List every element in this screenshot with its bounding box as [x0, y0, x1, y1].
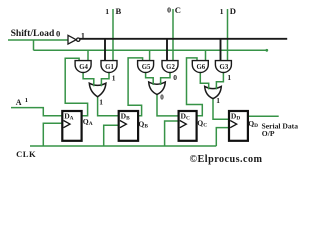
wire input C vertical	[172, 9, 174, 62]
wire bus drop to G1	[104, 39, 106, 62]
wire stub OR3 left input	[208, 86, 210, 89]
svg-text:1: 1	[216, 96, 220, 105]
or gate OR3	[205, 86, 222, 98]
and gate G2	[162, 61, 178, 73]
wire QD serial out	[248, 115, 279, 117]
svg-text:1: 1	[99, 98, 103, 107]
wire clock stub DB	[104, 125, 119, 146]
flip-flop DB box	[119, 111, 138, 141]
wire stub OR2 left input	[152, 82, 154, 85]
wire G6 out to OR3	[200, 73, 208, 89]
flip-flop DD box	[229, 111, 248, 141]
svg-text:0: 0	[160, 94, 164, 102]
wire inverted bus	[80, 38, 288, 40]
wire stub OR2 right input	[160, 82, 162, 85]
and gate G3	[215, 61, 231, 73]
wire bus drop to G2	[166, 39, 168, 62]
flip-flop DC clock triangle	[180, 121, 187, 128]
svg-text:Shift/Load: Shift/Load	[11, 28, 55, 39]
flip-flop DD clock triangle	[230, 121, 237, 128]
wire stub OR3 right input	[215, 86, 217, 89]
or gate OR1	[89, 83, 106, 97]
and gate G4	[75, 61, 91, 73]
svg-text:1: 1	[25, 97, 28, 104]
wire rail drop to G5	[149, 50, 151, 61]
svg-text:G6: G6	[196, 64, 205, 71]
wire input D vertical	[227, 9, 229, 62]
wire clock stub DD	[216, 128, 229, 146]
wire input B vertical	[112, 9, 114, 62]
svg-text:G3: G3	[220, 64, 229, 71]
wire rail drop to G6	[205, 50, 207, 61]
svg-text:1: 1	[81, 32, 85, 41]
svg-text:G4: G4	[79, 64, 88, 71]
wire QA to G4	[65, 58, 87, 115]
and gate G1	[101, 61, 117, 73]
wire rail drop to G4	[87, 50, 89, 61]
node rail end dot	[265, 49, 268, 52]
svg-text:O/P: O/P	[262, 129, 275, 138]
svg-text:1: 1	[112, 74, 116, 83]
wire Shift/Load direct rail	[34, 49, 268, 51]
svg-text:C: C	[175, 5, 181, 15]
svg-text:B: B	[116, 6, 122, 16]
svg-text:0: 0	[56, 29, 60, 39]
wire QC to G6	[187, 58, 203, 116]
wire G5 out to OR2	[146, 73, 154, 84]
wire OR3 out to DD	[213, 98, 229, 119]
svg-text:1: 1	[220, 7, 224, 16]
svg-text:G1: G1	[105, 64, 114, 71]
or gate OR2	[149, 82, 166, 94]
wire OR1 out to DB	[98, 97, 119, 116]
svg-text:D: D	[230, 6, 236, 16]
svg-text:©Elprocus.com: ©Elprocus.com	[190, 154, 263, 165]
wire input A to DA	[11, 108, 62, 116]
svg-text:0: 0	[167, 6, 171, 15]
flip-flop DA clock triangle	[64, 121, 71, 128]
svg-text:1: 1	[227, 73, 231, 82]
wire clock stub DA	[43, 123, 62, 146]
wire Shift/Load direct rail drop	[33, 40, 35, 50]
wire bus drop to G3	[220, 39, 222, 62]
svg-text:CLK: CLK	[16, 149, 36, 159]
and gate G5	[138, 61, 154, 73]
svg-text:G5: G5	[142, 64, 151, 71]
svg-text:G2: G2	[166, 64, 175, 71]
wire G4 out to OR1	[83, 73, 94, 85]
wire G3 out to OR3	[216, 73, 223, 89]
wire stub OR1 right input	[100, 83, 102, 86]
wire stub OR1 left input	[93, 83, 95, 86]
and gate G6	[192, 61, 208, 73]
wire G2 out to OR2	[161, 73, 170, 84]
wire Shift/Load input	[8, 39, 68, 41]
wire OR2 out to DC	[157, 94, 179, 116]
svg-text:1: 1	[105, 7, 109, 16]
flip-flop DA box	[62, 111, 81, 141]
flip-flop DC box	[179, 111, 197, 141]
svg-text:0: 0	[173, 73, 177, 82]
flip-flop DB clock triangle	[120, 121, 127, 128]
wire CLK line	[30, 145, 216, 147]
svg-text:A: A	[16, 98, 22, 107]
wire QB to G5	[128, 58, 143, 116]
inverter (NOT gate)	[68, 35, 80, 44]
wire G1 out to OR1	[101, 73, 109, 85]
wire clock stub DC	[165, 121, 179, 146]
